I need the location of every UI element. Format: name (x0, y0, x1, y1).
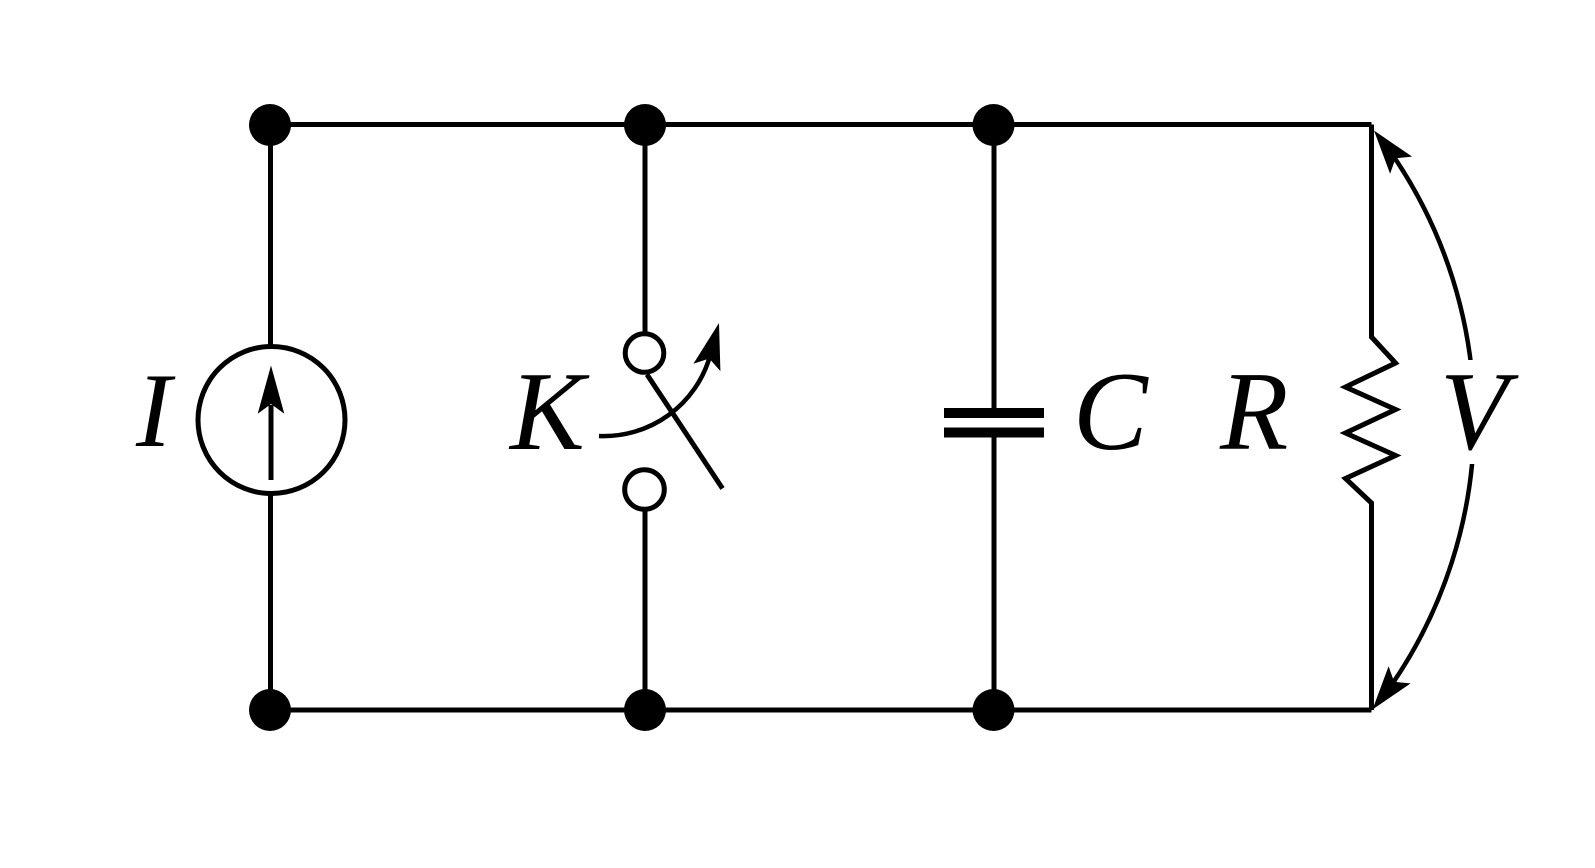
svg-text:R: R (1219, 350, 1288, 474)
svg-text:C: C (1073, 350, 1149, 474)
svg-text:I: I (135, 352, 176, 469)
svg-text:V: V (1440, 350, 1520, 474)
svg-text:K: K (508, 350, 590, 474)
